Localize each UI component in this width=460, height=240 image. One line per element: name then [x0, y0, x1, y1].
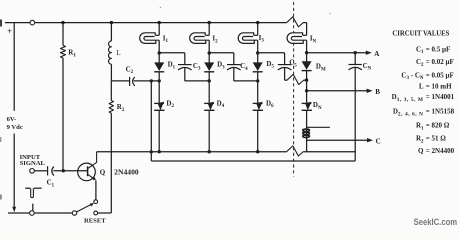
svg-text:= 0.05 μF: = 0.05 μF	[426, 71, 454, 79]
svg-text:= 0.5 μF: = 0.5 μF	[426, 45, 450, 53]
svg-text:Q: Q	[418, 147, 424, 155]
svg-text:SeekIC.com: SeekIC.com	[414, 217, 458, 227]
svg-text:A: A	[374, 50, 379, 58]
svg-text:2N4400: 2N4400	[114, 170, 139, 177]
svg-text:= 820 Ω: = 820 Ω	[426, 122, 450, 130]
svg-text:= 1N5158: = 1N5158	[426, 108, 455, 116]
svg-text:RESET: RESET	[84, 218, 106, 225]
svg-text:CIRCUIT VALUES: CIRCUIT VALUES	[392, 30, 449, 38]
svg-text:= 0.02 μF: = 0.02 μF	[426, 58, 454, 66]
svg-text:L: L	[419, 83, 424, 91]
svg-text:C: C	[376, 137, 381, 145]
svg-text:B: B	[375, 88, 380, 96]
svg-text:Q: Q	[100, 168, 106, 176]
svg-text:6V-: 6V-	[7, 116, 17, 123]
svg-text:L: L	[116, 49, 120, 57]
svg-text:9 Vdc: 9 Vdc	[7, 124, 23, 131]
svg-text:SIGNAL: SIGNAL	[20, 160, 46, 167]
svg-text:= 10 mH: = 10 mH	[426, 83, 452, 91]
svg-text:= 51 Ω: = 51 Ω	[426, 135, 446, 143]
svg-text:= 2N4400: = 2N4400	[426, 147, 455, 155]
svg-text:+: +	[7, 27, 12, 36]
svg-text:= 1N4001: = 1N4001	[426, 93, 455, 101]
